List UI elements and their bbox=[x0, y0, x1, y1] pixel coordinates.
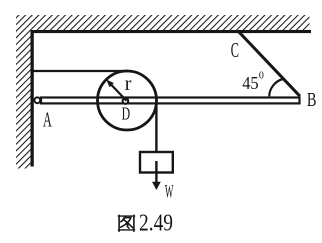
svg-text:45: 45 bbox=[242, 73, 259, 93]
angle arc at B bbox=[269, 79, 283, 96]
weight arrow bbox=[155, 161, 157, 183]
pulley D bbox=[98, 71, 157, 130]
wall (hatched) bbox=[16, 15, 31, 169]
weight box bbox=[140, 152, 173, 173]
pin D (axle) bbox=[123, 98, 129, 104]
svg-text:A: A bbox=[43, 107, 52, 131]
svg-text:B: B bbox=[307, 89, 317, 111]
caption: character tu (figure) bbox=[118, 215, 134, 231]
svg-text:2.49: 2.49 bbox=[139, 210, 173, 236]
rope (vertical, pulley to weight) bbox=[155, 99, 157, 152]
svg-text:C: C bbox=[231, 38, 239, 62]
strut CB (diagonal) bbox=[239, 32, 300, 96]
ceiling (hatched) bbox=[16, 15, 310, 30]
svg-text:W: W bbox=[165, 181, 174, 202]
svg-text:r: r bbox=[125, 73, 132, 95]
wall inner edge line bbox=[31, 30, 34, 167]
beam AB bbox=[41, 98, 300, 104]
rope (horizontal, wall to pulley top) bbox=[34, 70, 129, 72]
svg-text:0: 0 bbox=[259, 71, 264, 82]
ceiling inner edge line bbox=[31, 30, 312, 33]
svg-text:D: D bbox=[122, 104, 131, 124]
pin A bbox=[34, 97, 40, 103]
radius arrow bbox=[112, 85, 127, 101]
